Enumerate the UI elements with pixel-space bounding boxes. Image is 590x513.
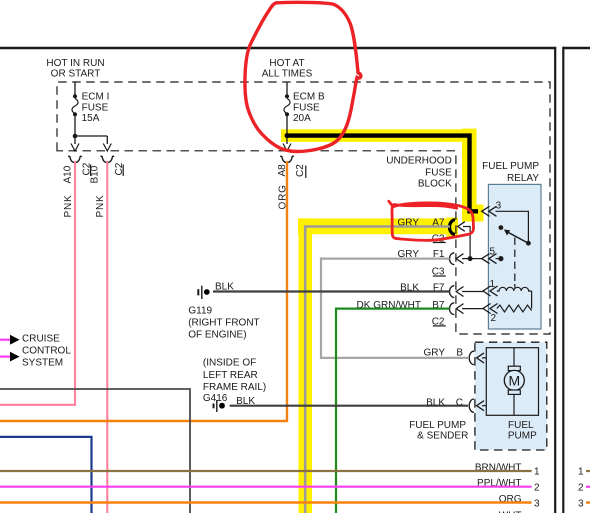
- svg-text:PUMP: PUMP: [508, 430, 537, 441]
- svg-text:BLK: BLK: [426, 397, 445, 408]
- wire highlight: GRY A7 wire (yellow): [298, 218, 458, 513]
- svg-text:2: 2: [534, 482, 540, 493]
- motor box: [486, 348, 538, 416]
- svg-text:B10: B10: [90, 165, 101, 183]
- svg-text:BLOCK: BLOCK: [418, 179, 452, 190]
- svg-text:C: C: [456, 397, 463, 408]
- svg-text:OF ENGINE): OF ENGINE): [188, 330, 246, 341]
- left border of right page: [562, 47, 564, 513]
- svg-text:1: 1: [578, 466, 584, 477]
- wire BLK G416 to fuel pump C: [230, 405, 468, 407]
- switch blade: [526, 241, 531, 246]
- svg-text:FUSE: FUSE: [293, 102, 320, 113]
- svg-text:RELAY: RELAY: [507, 173, 539, 184]
- svg-text:M: M: [508, 373, 520, 389]
- dashed box FUEL PUMP: [475, 342, 547, 450]
- connector A8: [280, 156, 293, 162]
- arrow into connector B10: [103, 144, 111, 152]
- svg-text:ALL TIMES: ALL TIMES: [262, 69, 313, 80]
- connector B10: [101, 156, 114, 162]
- mechanical link (dashed): [514, 238, 516, 285]
- connector A10: [68, 156, 81, 162]
- wire NAVY corner: [0, 437, 92, 513]
- wire BLK F7 from G119: [213, 290, 450, 292]
- motor M: [513, 348, 515, 367]
- svg-text:HOT IN RUN: HOT IN RUN: [46, 58, 104, 69]
- svg-text:2: 2: [578, 482, 584, 493]
- wire DK GRN/WHT B7: [336, 309, 450, 513]
- svg-text:20A: 20A: [293, 113, 311, 124]
- svg-text:2: 2: [491, 313, 497, 324]
- svg-text:CRUISE: CRUISE: [22, 333, 60, 344]
- svg-text:PNK: PNK: [95, 195, 106, 218]
- svg-text:FUSE: FUSE: [82, 102, 109, 113]
- svg-text:(RIGHT FRONT: (RIGHT FRONT: [188, 318, 259, 329]
- svg-text:C2: C2: [295, 164, 306, 177]
- svg-text:A10: A10: [63, 165, 74, 183]
- svg-text:G416: G416: [203, 393, 228, 404]
- switch contact: [499, 225, 504, 230]
- right border of left page: [554, 47, 556, 513]
- svg-text:CONTROL: CONTROL: [22, 345, 71, 356]
- wire pin3 to switch: [496, 211, 529, 243]
- svg-text:1: 1: [534, 466, 540, 477]
- svg-text:HOT AT: HOT AT: [269, 58, 304, 69]
- relay pin 3 chevrons: [482, 206, 497, 216]
- wire highlight: ECM B fuse to relay pin 3 (yellow): [281, 129, 484, 222]
- svg-text:FRAME RAIL): FRAME RAIL): [203, 382, 266, 393]
- junction node at ECM B fuse output: [285, 133, 290, 138]
- svg-text:G119: G119: [188, 306, 212, 317]
- svg-text:ECM B: ECM B: [293, 92, 325, 103]
- svg-text:ECM I: ECM I: [82, 92, 110, 103]
- svg-text:UNDERHOOD: UNDERHOOD: [386, 155, 452, 166]
- top border line (right page): [563, 47, 590, 50]
- svg-text:3: 3: [578, 498, 584, 509]
- svg-text:3: 3: [496, 201, 502, 212]
- wire GRY F1 to fuel pump B: [321, 259, 468, 358]
- wire BLK corner: [0, 389, 190, 513]
- svg-text:& SENDER: & SENDER: [417, 430, 468, 441]
- red circle around HOT AT ALL TIMES: [245, 2, 361, 151]
- svg-text:PNK: PNK: [63, 195, 74, 218]
- svg-text:FUSE: FUSE: [425, 167, 452, 178]
- top border line (left page): [0, 47, 555, 50]
- svg-text:B: B: [456, 348, 463, 359]
- svg-text:BLK: BLK: [215, 282, 234, 293]
- svg-text:GRY: GRY: [424, 348, 446, 359]
- arrow into connector A8: [283, 144, 291, 152]
- red scribble around GRY A7: [389, 201, 474, 240]
- svg-text:15A: 15A: [82, 113, 100, 124]
- svg-text:OR START: OR START: [51, 69, 101, 80]
- arrow into connector A10: [71, 144, 79, 152]
- svg-text:LEFT REAR: LEFT REAR: [203, 370, 258, 381]
- svg-text:3: 3: [534, 498, 540, 509]
- svg-text:FUEL PUMP: FUEL PUMP: [482, 161, 539, 172]
- svg-text:SYSTEM: SYSTEM: [22, 357, 63, 368]
- svg-text:(INSIDE OF: (INSIDE OF: [203, 357, 256, 368]
- wire GRY A7 (highlighted): [305, 227, 450, 513]
